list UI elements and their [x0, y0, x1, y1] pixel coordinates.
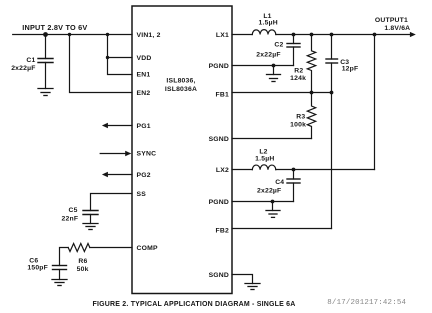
svg-text:FB2: FB2 [216, 227, 229, 234]
svg-text:150pF: 150pF [27, 264, 48, 271]
value label L1 [259, 13, 278, 26]
value label C5 [62, 207, 79, 222]
svg-text:VDD: VDD [137, 55, 152, 62]
wire SGND2 [232, 275, 253, 284]
svg-text:LX2: LX2 [216, 167, 229, 174]
value label R2 [290, 67, 306, 82]
part name ISL8036 [165, 78, 197, 93]
svg-text:PG2: PG2 [137, 172, 151, 179]
svg-text:PGND: PGND [209, 63, 229, 70]
svg-text:LX1: LX1 [216, 32, 229, 39]
svg-text:SYNC: SYNC [137, 151, 157, 158]
node label OUTPUT1 [375, 17, 410, 32]
wire EN1 branch [108, 58, 133, 75]
ground (PGND2) [272, 202, 274, 211]
svg-text:INPUT 2.8V TO 6V: INPUT 2.8V TO 6V [22, 23, 87, 32]
value label C6 [27, 258, 48, 272]
node output junction LX2 tie [373, 33, 377, 37]
svg-text:C2: C2 [274, 42, 283, 49]
resistor R6 [68, 244, 90, 252]
node output junction C3 [330, 33, 334, 37]
svg-text:ISL8036,: ISL8036, [166, 78, 195, 85]
pin label SS [137, 191, 147, 198]
capacitor C3 [326, 35, 338, 93]
ground (C5) [83, 224, 98, 230]
pin label FB2 [216, 227, 229, 234]
pin label SGND (ch1) [209, 136, 229, 143]
wire output1 arrowhead [410, 32, 416, 37]
pin label EN2 [137, 90, 151, 97]
svg-text:100k: 100k [290, 121, 306, 128]
value label R3 [290, 113, 306, 128]
svg-text:ISL8036A: ISL8036A [165, 86, 197, 93]
pin label PG2 [137, 172, 151, 179]
node output junction C2 [292, 33, 296, 37]
resistor R2 [307, 35, 315, 93]
pin label SGND (ch2) [209, 272, 229, 279]
capacitor C5 [83, 211, 98, 224]
svg-text:2x22µF: 2x22µF [11, 65, 35, 72]
wire output1 bus [276, 34, 410, 36]
inductor L1 [252, 30, 275, 35]
inductor L2 [252, 165, 275, 170]
capacitor C4 [287, 170, 300, 202]
node LX2 junction C4 [292, 168, 296, 172]
ground (C6) [52, 280, 67, 286]
svg-text:1.5µH: 1.5µH [255, 156, 274, 163]
svg-text:50k: 50k [77, 266, 89, 273]
wire output tie vertical [374, 35, 376, 170]
node input junction EN2 [68, 33, 71, 36]
pin label PGND (ch1) [209, 63, 229, 70]
wire FB1-FB2 tie [331, 93, 333, 229]
svg-text:SGND: SGND [209, 272, 229, 279]
pin label LX2 [216, 167, 229, 174]
wire SYNC input arrow [100, 153, 125, 155]
node label INPUT [22, 23, 87, 32]
svg-text:C4: C4 [275, 179, 284, 186]
wire PG1 output arrow [107, 125, 132, 127]
wire PG2 output arrow [107, 174, 132, 176]
ground (SGND2) [245, 284, 260, 290]
ground (PGND1) [273, 66, 275, 75]
wire FB1 [232, 92, 332, 94]
capacitor C1 [38, 35, 53, 89]
wire VDD branch [108, 35, 133, 58]
wire R6 to C6 [60, 248, 69, 266]
node PGND2 ground junction [271, 200, 275, 204]
node input junction VDD [106, 33, 109, 36]
svg-text:2x22µF: 2x22µF [256, 51, 280, 58]
timestamp [327, 299, 406, 307]
pin label PGND (ch2) [209, 199, 229, 206]
pin label COMP [137, 245, 158, 252]
wire PGND1 [232, 65, 294, 67]
svg-text:VIN1, 2: VIN1, 2 [137, 32, 161, 39]
ground (C1) [38, 89, 53, 96]
svg-text:EN1: EN1 [137, 72, 151, 79]
wire LX2 to inductor [232, 169, 252, 171]
pin label VIN1,2 [137, 32, 161, 39]
svg-text:FB1: FB1 [216, 91, 229, 98]
wire input bus [13, 34, 132, 36]
svg-text:C1: C1 [26, 57, 35, 64]
pin label SYNC [137, 151, 157, 158]
capacitor C6 [53, 266, 67, 280]
pin label PG1 [137, 123, 151, 130]
node output junction R2 [310, 33, 314, 37]
svg-text:PG1: PG1 [137, 123, 151, 130]
pin label LX1 [216, 32, 229, 39]
node PGND1 ground junction [272, 64, 276, 68]
value label L2 [255, 149, 274, 163]
node input junction C1 [43, 32, 48, 37]
resistor R3 [307, 93, 315, 139]
svg-text:FIGURE 2. TYPICAL APPLICATION: FIGURE 2. TYPICAL APPLICATION DIAGRAM - … [93, 301, 296, 308]
caption FIGURE 2 [93, 301, 296, 308]
value label C3 [340, 59, 358, 72]
value label C1 [11, 57, 35, 72]
value label R6 [77, 258, 89, 273]
pin label FB1 [216, 91, 229, 98]
node VDD junction [106, 56, 109, 59]
svg-text:SS: SS [137, 191, 147, 198]
value label C4 [257, 179, 284, 195]
svg-text:C5: C5 [69, 207, 78, 214]
svg-text:EN2: EN2 [137, 90, 151, 97]
wire PGND2 [232, 201, 294, 203]
svg-text:R3: R3 [296, 113, 305, 120]
svg-text:OUTPUT1: OUTPUT1 [375, 17, 408, 24]
wire COMP [90, 247, 132, 249]
svg-text:R6: R6 [78, 258, 87, 265]
value label C2 [256, 42, 283, 59]
pin label EN1 [137, 72, 151, 79]
svg-text:SGND: SGND [209, 136, 229, 143]
svg-text:PGND: PGND [209, 199, 229, 206]
wire LX2 output [276, 169, 375, 171]
wire EN2 branch [70, 35, 133, 93]
svg-text:22nF: 22nF [62, 215, 79, 222]
wire FB2 [232, 228, 332, 230]
svg-text:R2: R2 [294, 67, 303, 74]
node FB1 junction R2/R3 [310, 91, 314, 95]
IC U1 ISL8036/ISL8036A body [132, 6, 232, 294]
svg-text:1.8V/6A: 1.8V/6A [384, 25, 410, 32]
svg-text:2x22µF: 2x22µF [257, 187, 281, 194]
wire LX1 to inductor [232, 34, 252, 36]
svg-text:124k: 124k [290, 75, 306, 82]
pin label VDD [137, 55, 152, 62]
wire SGND1 [232, 138, 312, 140]
svg-text:1.5µH: 1.5µH [259, 19, 278, 26]
wire SS branch [91, 194, 133, 211]
capacitor C2 [287, 35, 300, 66]
svg-text:8/17/201217:42:54: 8/17/201217:42:54 [327, 299, 406, 307]
svg-text:12pF: 12pF [342, 65, 359, 72]
node FB1 junction C3/FB2 tie [330, 91, 334, 95]
svg-text:COMP: COMP [137, 245, 158, 252]
